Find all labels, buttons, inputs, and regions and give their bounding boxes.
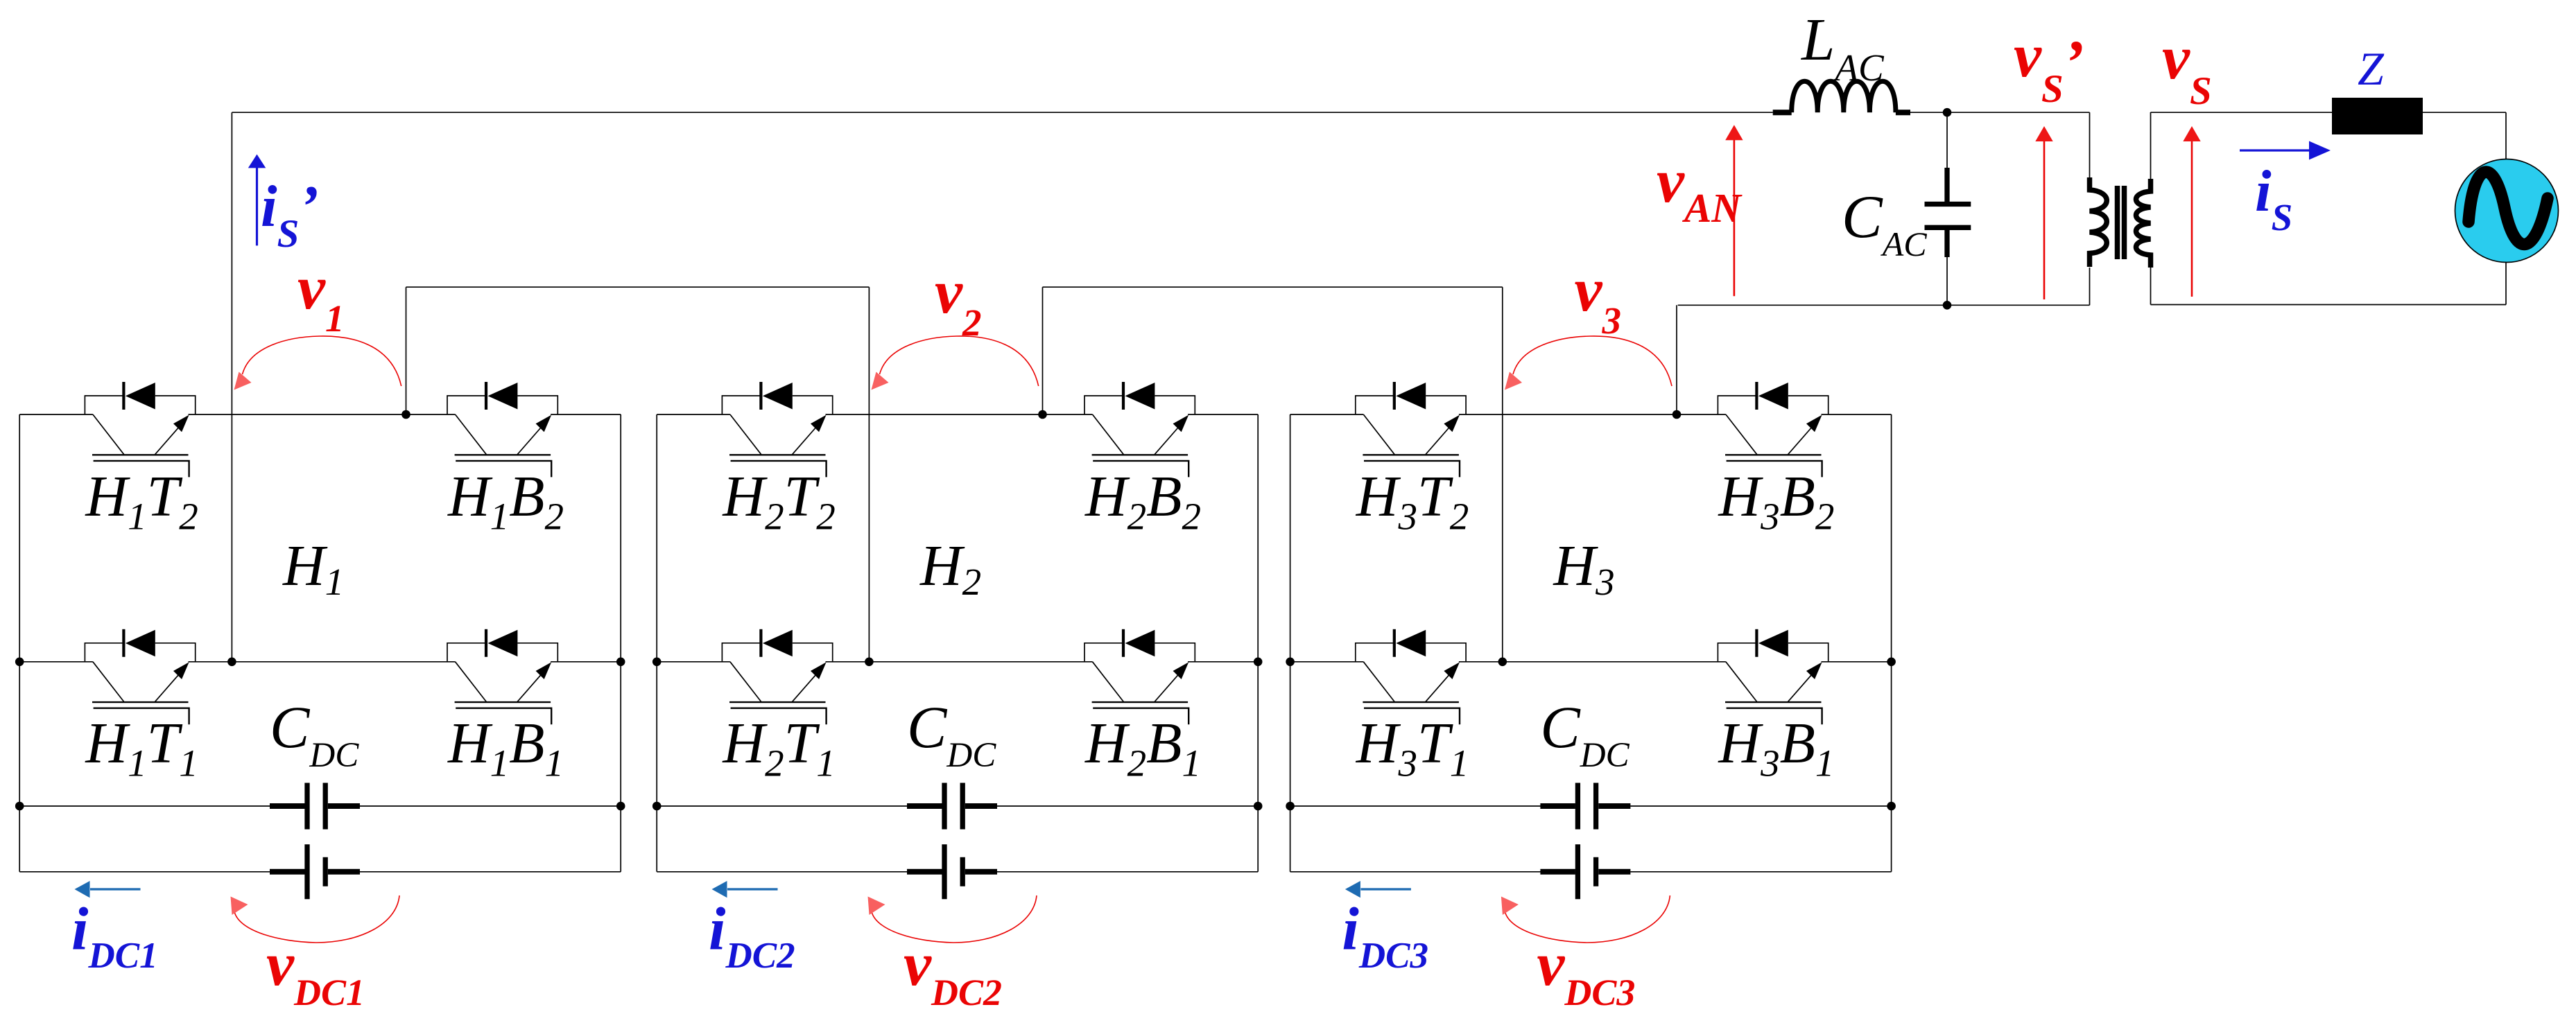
node at C_AC bottom	[1943, 301, 1952, 310]
transistor H1T1 (IGBT bottom-left)	[85, 629, 195, 724]
wire H3 output leg	[1676, 305, 1677, 414]
node H1 left DC+	[15, 802, 24, 811]
transistor H3T1 (IGBT bottom-left)	[1356, 629, 1466, 724]
wire secondary top	[2151, 112, 2507, 113]
wire H1 output to H2 input (v2 bus)	[406, 286, 870, 288]
capacitor C_DC lower (H3)	[1540, 844, 1630, 899]
arrow arc v_DC2 (red)	[872, 895, 1037, 943]
transformer core	[2115, 186, 2120, 259]
node H2 right DC+	[1254, 802, 1263, 811]
node H3 right DC+	[1887, 802, 1896, 811]
wire top bus from H1 output to L_AC	[232, 112, 1772, 113]
wire H1 DC- rail	[19, 871, 621, 873]
wire H1 phase leg (center vertical from top bus)	[231, 112, 232, 662]
wire H3 left boundary	[1290, 414, 1291, 872]
wire H1 output leg	[406, 287, 407, 414]
node at C_AC top	[1943, 108, 1952, 117]
wire H3 phase leg (center vertical)	[1502, 287, 1503, 662]
node H1 output	[401, 410, 410, 419]
node H1 right middle-rail	[616, 658, 625, 667]
node H2 center/middle-rail	[865, 658, 874, 667]
capacitor C_DC lower (H1)	[270, 844, 360, 899]
svg-text:Z: Z	[2358, 42, 2385, 95]
wire H1 middle rail	[19, 661, 621, 663]
wire H1 right boundary	[620, 414, 621, 872]
arrow arc v_DC1 (red)	[234, 895, 400, 943]
node H3 left DC+	[1286, 802, 1295, 811]
node H3 right middle-rail	[1887, 658, 1896, 667]
wire C_AC node to transformer primary	[1947, 112, 2090, 113]
arrow arc v_3 (red)	[1513, 336, 1672, 386]
transistor H2B2 (IGBT top-right)	[1084, 382, 1195, 477]
transistor H3B2 (IGBT top-right)	[1718, 382, 1828, 477]
wire H2 output to H3 input (v3 bus)	[1043, 286, 1503, 288]
wire H2 middle rail	[657, 661, 1258, 663]
capacitor C_DC upper (H2)	[907, 783, 997, 830]
transistor H1B2 (IGBT top-right)	[447, 382, 557, 477]
wire H1 top rail	[19, 414, 621, 415]
wire H3 middle rail	[1290, 661, 1892, 663]
node H1 right DC+	[616, 802, 625, 811]
transformer secondary vertical	[2150, 112, 2152, 305]
node H2 output	[1038, 410, 1047, 419]
transistor H3B1 (IGBT bottom-right)	[1718, 629, 1828, 724]
wire H3 DC- rail	[1290, 871, 1892, 873]
node at H3 output junction	[1672, 410, 1682, 419]
node H3 left middle-rail	[1286, 658, 1295, 667]
node H3 center/middle-rail	[1498, 658, 1507, 667]
transistor H1T2 (IGBT top-left)	[85, 382, 195, 477]
AC source (grid)	[2455, 159, 2559, 263]
arrow i_DC1 (blue, pointing left)	[90, 888, 141, 890]
AC source sine wave	[2469, 172, 2548, 244]
wire H1 DC+ rail	[19, 805, 621, 807]
arrow v_S (red, up)	[2191, 141, 2193, 297]
node H1 left middle-rail	[15, 658, 24, 667]
arrow i_DC2 (blue, pointing left)	[727, 888, 778, 890]
arrow arc v_DC3 (red)	[1505, 895, 1670, 943]
transistor H2T2 (IGBT top-left)	[722, 382, 832, 477]
transformer secondary winding	[2136, 179, 2151, 268]
capacitor C_DC upper (H3)	[1540, 783, 1630, 830]
wire H2 output leg	[1042, 287, 1044, 414]
wire L_AC to C_AC node	[1910, 112, 1947, 113]
arrow i_S-prime (blue, up)	[256, 166, 258, 245]
arrow arc v_2 (red)	[880, 336, 1039, 386]
wire H2 right boundary	[1257, 414, 1259, 872]
arrow i_S (blue, right)	[2240, 149, 2310, 151]
wire H2 phase leg (center vertical)	[868, 287, 870, 662]
transformer primary winding	[2090, 177, 2107, 267]
node H2 left middle-rail	[652, 658, 662, 667]
wire H2 left boundary	[656, 414, 657, 872]
arrow v_S-prime (red, up)	[2043, 141, 2046, 299]
wire H3 right boundary	[1891, 414, 1892, 872]
wire H3 DC+ rail	[1290, 805, 1892, 807]
capacitor C_DC lower (H2)	[907, 844, 997, 899]
inductor L_AC	[1773, 110, 1792, 115]
node H2 right middle-rail	[1254, 658, 1263, 667]
arrow v_AN (red, up)	[1734, 138, 1736, 296]
arrow i_DC3 (blue, pointing left)	[1360, 888, 1411, 890]
transistor H3T2 (IGBT top-left)	[1356, 382, 1466, 477]
arrow arc v_1 (red)	[243, 336, 401, 386]
wire primary bottom (v_AN node to transformer)	[1678, 304, 2090, 306]
wire H2 DC- rail	[657, 871, 1258, 873]
transistor H2B1 (IGBT bottom-right)	[1084, 629, 1195, 724]
wire H2 DC+ rail	[657, 805, 1258, 807]
transformer primary vertical	[2089, 112, 2091, 305]
capacitor C_DC upper (H1)	[270, 783, 360, 830]
transistor H1B1 (IGBT bottom-right)	[447, 629, 557, 724]
node H1 center/middle-rail	[227, 658, 236, 667]
transistor H2T1 (IGBT bottom-left)	[722, 629, 832, 724]
wire H3 top rail	[1290, 414, 1892, 415]
impedance Z (black box)	[2332, 98, 2423, 134]
wire secondary right	[2505, 112, 2507, 304]
node H2 left DC+	[652, 802, 662, 811]
wire H1 left boundary	[19, 414, 20, 872]
wire C_AC branch	[1946, 112, 1948, 305]
capacitor C_AC	[1944, 168, 1949, 202]
wire secondary bottom	[2151, 304, 2507, 306]
wire H2 top rail	[657, 414, 1258, 415]
